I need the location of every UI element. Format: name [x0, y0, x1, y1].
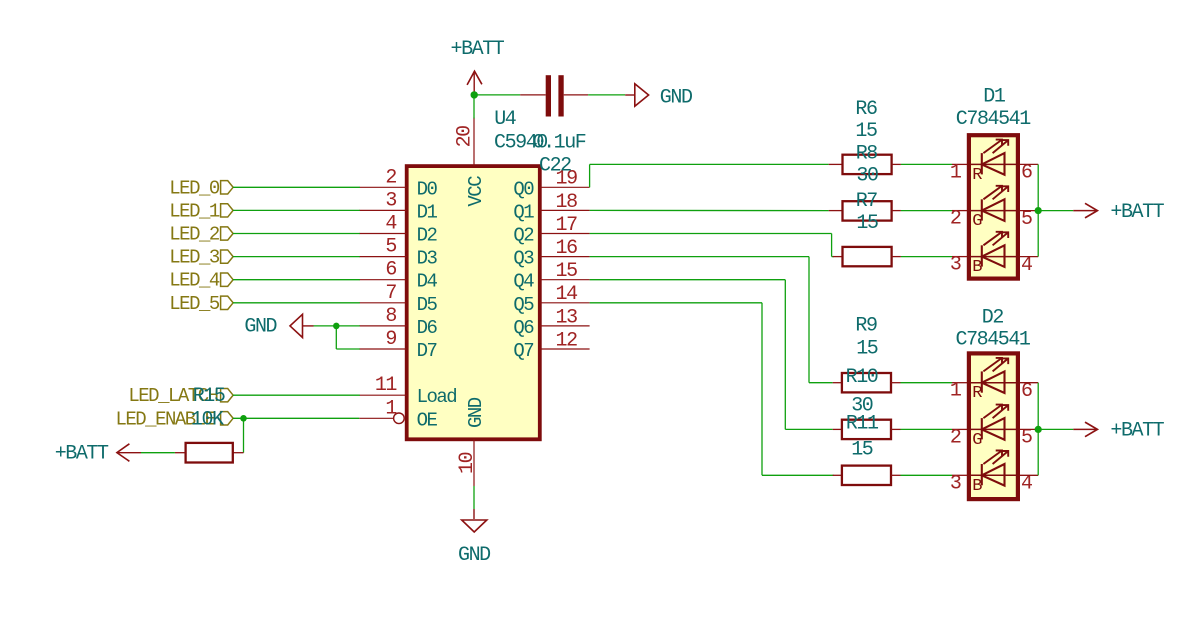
LED D2 reference label	[982, 307, 1004, 330]
svg-text:LED_5: LED_5	[169, 293, 220, 315]
svg-text:0.1uF: 0.1uF	[533, 132, 586, 155]
hierarchical label LED_4	[169, 270, 233, 292]
wire R15 to +BATT arrow	[141, 452, 175, 454]
resistor R11 (15 ohm) to D2 green	[833, 420, 901, 439]
resistor R10 (30 ohm) to D2 red	[833, 373, 901, 392]
U4 pin 12 (Q7) stub + number + name	[513, 329, 589, 362]
stray label 15 (displaced value)	[855, 120, 877, 143]
svg-text:GND: GND	[458, 544, 490, 567]
power symbol +BATT (right of D1)	[1073, 201, 1164, 224]
svg-text:R11: R11	[846, 412, 879, 435]
wire LED_LATCH to U4 pin 11	[233, 394, 360, 396]
svg-text:R10: R10	[846, 366, 878, 389]
svg-text:C784541: C784541	[956, 108, 1031, 131]
svg-text:R6: R6	[855, 98, 877, 121]
resistor R8 value 30	[856, 165, 878, 188]
power symbol GND (top right of cap)	[625, 84, 692, 110]
LED D1 value C784541	[956, 108, 1031, 131]
svg-text:Q6: Q6	[513, 317, 534, 339]
junction dot at D1 pin 5	[1035, 207, 1042, 214]
svg-text:15: 15	[855, 120, 877, 143]
svg-text:D7: D7	[417, 340, 437, 362]
wire LED_ENABLE to U4 pin 1 (OE)	[233, 417, 359, 419]
wire R7 to D1 pin 2	[901, 210, 952, 212]
resistor R10 value 30	[851, 395, 873, 418]
hierarchical label LED_ENABLE	[115, 408, 233, 430]
svg-text:D2: D2	[417, 225, 438, 247]
svg-text:C22: C22	[539, 155, 571, 178]
LED D2 R element (pin 1/6)	[950, 358, 1038, 403]
wire VCC node to capacitor C22	[474, 94, 520, 96]
svg-text:15: 15	[851, 439, 873, 462]
svg-text:20: 20	[453, 126, 476, 148]
svg-text:Q5: Q5	[513, 294, 534, 316]
svg-text:7: 7	[385, 282, 396, 305]
U4 pin 13 (Q6) stub + number + name	[513, 306, 589, 339]
wire LED_3 to U4 pin 5	[233, 256, 360, 258]
wire GND net down to D7 pin 9	[336, 326, 360, 349]
svg-text:18: 18	[556, 191, 578, 214]
svg-text:13: 13	[556, 306, 578, 329]
LED D2 B element (pin 3/4)	[950, 451, 1038, 496]
U4 pin 9 (D7) stub + number + name	[359, 328, 436, 362]
resistor R15 reference label (overlapping)	[193, 385, 225, 408]
svg-text:Q7: Q7	[513, 340, 533, 362]
U4 pin 7 (D5) stub + number + name	[359, 282, 437, 316]
wire D2 pin 5 to +BATT	[1038, 428, 1073, 430]
resistor R9 (unlabeled body) to D2 blue	[833, 466, 901, 485]
svg-text:R15: R15	[193, 385, 225, 408]
svg-text:G: G	[972, 212, 982, 231]
resistor R11 value 15	[851, 439, 873, 462]
svg-text:5: 5	[1021, 208, 1032, 231]
wire LED_1 to U4 pin 3	[233, 209, 360, 211]
svg-text:15: 15	[856, 212, 878, 235]
wire LED_4 to U4 pin 6	[233, 279, 360, 281]
svg-text:Q3: Q3	[513, 248, 534, 270]
U4 pin 11 (Load) stub + number + name	[359, 374, 456, 408]
svg-text:D3: D3	[417, 248, 438, 270]
wire R6 to D1 pin 3	[901, 256, 952, 258]
svg-text:30: 30	[856, 165, 878, 188]
resistor R15 (pull-up to +BATT)	[175, 443, 244, 463]
U4 reference label	[494, 108, 516, 131]
svg-text:D1: D1	[417, 201, 438, 223]
wire Q0 (pin19) up and to resistor R8	[590, 164, 829, 187]
svg-text:+BATT: +BATT	[1110, 420, 1164, 443]
wire Q1 (pin18) to resistor R7	[590, 209, 829, 211]
power symbol +BATT (left)	[55, 443, 141, 466]
svg-text:6: 6	[1021, 380, 1032, 403]
svg-text:4: 4	[1021, 254, 1032, 277]
svg-text:2: 2	[950, 426, 961, 449]
svg-text:R7: R7	[856, 190, 878, 213]
RGB LED D2 (C784541) body	[969, 353, 1018, 499]
U4 pin 1 (OE) stub + number + name	[359, 397, 437, 431]
U4 pin 19 (Q0) stub + number + name	[513, 168, 589, 201]
resistor R8 (30 ohm) to D1 red	[829, 155, 901, 174]
svg-text:16: 16	[556, 237, 578, 260]
svg-text:4: 4	[385, 213, 396, 236]
svg-text:15: 15	[856, 338, 878, 361]
wire GND flag to D6 pin 8	[314, 325, 360, 327]
U4 pin 20 (VCC) stub + number + name	[453, 118, 487, 207]
resistor R8 reference label	[856, 143, 878, 166]
svg-text:GND: GND	[465, 397, 487, 428]
U4 pin 4 (D2) stub + number + name	[359, 213, 437, 247]
junction dot at D2 pin 5	[1035, 426, 1042, 433]
wire D2 anode bus (pins 6-5-4)	[1037, 383, 1039, 476]
wire D1 pin 5 to +BATT	[1038, 210, 1073, 212]
LED D2 value C784541	[956, 329, 1031, 352]
power symbol GND (left, at D6)	[244, 314, 313, 338]
svg-text:9: 9	[385, 328, 396, 351]
svg-text:D2: D2	[982, 307, 1004, 330]
svg-text:Q2: Q2	[513, 225, 534, 247]
svg-text:12: 12	[556, 329, 578, 352]
svg-text:6: 6	[1021, 162, 1032, 185]
svg-text:5: 5	[1021, 427, 1032, 450]
U4 pin 6 (D4) stub + number + name	[359, 259, 437, 293]
svg-text:R8: R8	[856, 143, 878, 166]
resistor R11 reference label	[846, 412, 879, 435]
svg-text:G: G	[972, 431, 982, 450]
resistor R15 value label 10K (overlapping)	[191, 408, 224, 431]
wire R8 to D1 pin 1	[901, 163, 952, 165]
svg-text:14: 14	[556, 283, 578, 306]
LED D1 R element (pin 1/6)	[950, 140, 1038, 185]
wire junction down to pull-up resistor R15	[243, 418, 245, 452]
wire R11 to D2 pin 2	[901, 428, 953, 430]
svg-text:Q4: Q4	[513, 271, 534, 293]
wire LED_0 to U4 pin 2	[233, 186, 360, 188]
svg-text:2: 2	[950, 208, 961, 231]
svg-text:B: B	[972, 477, 982, 496]
svg-text:OE: OE	[417, 409, 438, 431]
svg-text:+BATT: +BATT	[55, 443, 109, 466]
svg-text:D4: D4	[417, 271, 438, 293]
svg-text:+BATT: +BATT	[1110, 201, 1164, 224]
resistor R6 (unlabeled body) to D1 blue	[833, 247, 901, 266]
IC U4 body (8-bit latch driver, part C5940)	[407, 166, 540, 439]
LED D1 reference label	[983, 86, 1006, 109]
svg-text:Q1: Q1	[513, 201, 534, 223]
svg-text:+BATT: +BATT	[451, 38, 505, 61]
wire R9 to D2 pin 3	[901, 474, 953, 476]
wire VCC node down to U4 pin 20	[473, 95, 475, 119]
capacitor C22 reference	[539, 155, 571, 178]
svg-text:LED_3: LED_3	[169, 247, 220, 269]
wire R10 to D2 pin 1	[901, 382, 953, 384]
wire Q2 (pin17) to resistor R6	[590, 234, 834, 257]
svg-text:R: R	[972, 166, 982, 185]
svg-text:GND: GND	[660, 87, 692, 110]
svg-text:VCC: VCC	[465, 176, 487, 207]
svg-text:11: 11	[375, 374, 398, 397]
hierarchical label LED_2	[169, 224, 233, 246]
wire LED_5 to U4 pin 7	[233, 302, 360, 304]
junction dot on LED_ENABLE net	[240, 415, 247, 422]
wire U4 pin 10 to GND symbol	[473, 486, 475, 509]
power symbol GND (bottom)	[458, 509, 490, 567]
LED D1 B element (pin 3/4)	[950, 232, 1038, 277]
svg-text:3: 3	[950, 254, 961, 277]
wire Q5 (pin14) down to resistor R9	[590, 303, 834, 476]
U4 value label C5940	[494, 132, 547, 155]
U4 pin 18 (Q1) stub + number + name	[513, 191, 589, 224]
U4 pin 10 (GND) stub + number + name	[456, 397, 487, 486]
svg-text:Load: Load	[417, 386, 457, 408]
svg-text:10K: 10K	[191, 408, 224, 431]
stray label 15 (displaced value)	[856, 338, 878, 361]
power symbol +BATT (top)	[451, 38, 505, 95]
wire LED_2 to U4 pin 4	[233, 233, 360, 235]
resistor R7 (15 ohm) to D1 green	[829, 201, 901, 220]
wire Q3 (pin16) down to resistor R10	[590, 257, 833, 383]
svg-text:17: 17	[556, 214, 578, 237]
svg-text:3: 3	[385, 189, 396, 212]
U4 pin 17 (Q2) stub + number + name	[513, 214, 589, 247]
hierarchical label LED_0	[169, 177, 233, 199]
svg-text:U4: U4	[494, 108, 516, 131]
svg-text:6: 6	[385, 259, 396, 282]
svg-text:C784541: C784541	[956, 329, 1031, 352]
LED D2 G element (pin 2/5)	[950, 405, 1038, 450]
svg-text:LED_1: LED_1	[169, 200, 220, 222]
wire D1 anode bus (pins 6-5-4)	[1037, 164, 1039, 256]
svg-text:1: 1	[385, 397, 397, 420]
junction dot on GND net	[333, 323, 340, 330]
U4 pin 15 (Q4) stub + number + name	[513, 260, 589, 293]
svg-text:R: R	[972, 384, 982, 403]
svg-text:8: 8	[385, 305, 396, 328]
svg-text:D0: D0	[417, 178, 438, 200]
svg-text:3: 3	[950, 472, 961, 495]
U4 pin 16 (Q3) stub + number + name	[513, 237, 589, 270]
hierarchical label LED_3	[169, 247, 233, 269]
resistor R7 value 15	[856, 212, 878, 235]
U4 pin 8 (D6) stub + number + name	[359, 305, 437, 339]
U4 pin 14 (Q5) stub + number + name	[513, 283, 589, 316]
svg-text:Q0: Q0	[513, 178, 534, 200]
svg-text:D5: D5	[417, 294, 438, 316]
svg-text:10: 10	[456, 452, 479, 474]
svg-text:LED_4: LED_4	[169, 270, 220, 292]
wire capacitor to GND flag (top)	[588, 94, 625, 96]
svg-text:5: 5	[385, 236, 396, 259]
stray label R9 (displaced reference)	[855, 315, 877, 338]
capacitor C22 value 0.1uF	[533, 132, 586, 155]
capacitor C22 (0.1uF)	[520, 75, 588, 116]
resistor R10 reference label	[846, 366, 878, 389]
svg-text:D6: D6	[417, 317, 438, 339]
RGB LED D1 (C784541) body	[969, 135, 1018, 278]
junction dot at VCC node	[471, 91, 478, 98]
svg-text:1: 1	[950, 380, 962, 403]
svg-text:LED_2: LED_2	[169, 224, 220, 246]
U4 pin 5 (D3) stub + number + name	[359, 236, 437, 270]
hierarchical label LED_1	[169, 200, 233, 222]
wire Q4 (pin15) down to resistor R11	[590, 280, 833, 430]
LED D1 G element (pin 2/5)	[950, 186, 1038, 231]
svg-text:B: B	[972, 258, 982, 277]
svg-text:1: 1	[950, 161, 962, 184]
svg-text:GND: GND	[244, 315, 276, 338]
hierarchical label LED_5	[169, 293, 233, 315]
power symbol +BATT (right of D2)	[1073, 420, 1164, 443]
svg-text:R9: R9	[855, 315, 877, 338]
svg-text:LED_0: LED_0	[169, 177, 220, 199]
svg-text:2: 2	[385, 166, 396, 189]
stray label R6 (displaced reference)	[855, 98, 877, 121]
resistor R7 reference label	[856, 190, 878, 213]
hierarchical label LED_LATCH	[128, 385, 233, 407]
U4 pin 2 (D0) stub + number + name	[359, 166, 437, 200]
U4 pin 3 (D1) stub + number + name	[359, 189, 437, 223]
svg-text:D1: D1	[983, 86, 1006, 109]
svg-text:4: 4	[1021, 473, 1032, 496]
svg-text:15: 15	[556, 260, 578, 283]
